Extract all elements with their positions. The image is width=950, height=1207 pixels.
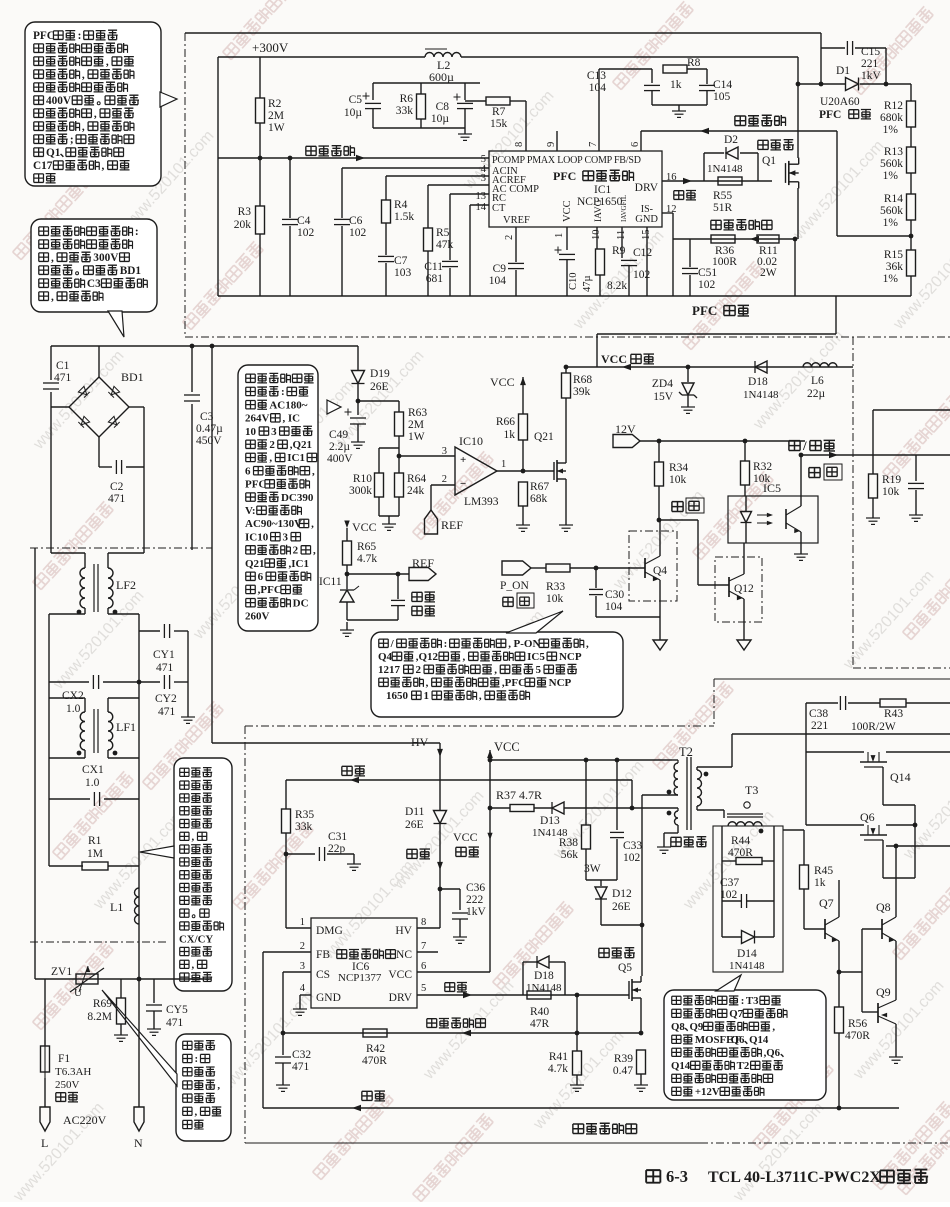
wire DRV pin16 to Q1 gate <box>662 180 772 182</box>
svg-text:R9: R9 <box>612 245 626 257</box>
svg-text:R40: R40 <box>530 1006 549 1018</box>
wire secondary output rail <box>732 733 950 735</box>
svg-text:D18: D18 <box>748 376 768 388</box>
wire Q21 drain to R68 <box>565 398 567 457</box>
wire Q5 drain up to T2 primary <box>641 795 643 976</box>
svg-text:R19: R19 <box>882 474 901 486</box>
wire R19 to ground <box>872 498 874 515</box>
svg-text:102: 102 <box>349 227 367 239</box>
wire Q7 base stub <box>804 928 825 930</box>
resistor R11 <box>757 235 779 243</box>
capacitor (REF bypass) <box>391 599 405 601</box>
wire D14 left <box>722 936 741 938</box>
svg-text:L1: L1 <box>110 900 123 914</box>
svg-text:1kV: 1kV <box>466 906 487 918</box>
wire R7 to pin8 drop <box>510 100 526 102</box>
svg-text:C49: C49 <box>329 429 348 441</box>
svg-text:R2: R2 <box>268 98 282 110</box>
callout note: anti-interference description <box>174 758 232 991</box>
resistor R33 <box>546 564 570 572</box>
boxed kai guan under P_ON <box>503 597 513 606</box>
wire LED anode <box>745 496 747 511</box>
T3 terminal dot <box>744 802 750 808</box>
plug N <box>134 1107 144 1131</box>
resistor R63 <box>395 412 404 436</box>
standby bottom border right part (dash-dot) <box>700 1142 950 1144</box>
svg-text:4: 4 <box>300 983 306 994</box>
svg-text:1k: 1k <box>504 429 516 441</box>
wire C5/R6/C8 bottom <box>373 127 465 129</box>
svg-text:39k: 39k <box>573 386 591 398</box>
wire Q6 drain rail <box>806 824 864 826</box>
wire to R32 <box>744 441 746 461</box>
wire pin12 vertical to rail <box>672 213 674 296</box>
ground under IC5 <box>800 551 802 554</box>
svg-text:8.2k: 8.2k <box>607 280 627 292</box>
svg-text:R69: R69 <box>93 998 112 1010</box>
wire LF1 right top <box>107 698 109 712</box>
svg-text:T2: T2 <box>679 745 693 759</box>
wire R10 bottom <box>378 497 380 516</box>
wire C5/R6/C8 top <box>373 82 480 84</box>
wire C7 to ground rail <box>385 263 387 296</box>
wire sampling node to R3 <box>259 158 261 206</box>
svg-text:R12: R12 <box>884 100 903 112</box>
svg-text:221: 221 <box>811 720 829 732</box>
svg-text:CX1: CX1 <box>82 764 104 776</box>
wire jog to LF1 left <box>49 697 85 699</box>
wire C10 to ground rail <box>566 260 568 296</box>
zener diode ZD4 <box>682 383 694 395</box>
svg-text:102: 102 <box>623 852 641 864</box>
feedback label (fan kui) <box>342 766 365 776</box>
flag P_ON input <box>502 561 531 575</box>
cold/hot isolation border vertical (dash-dot) <box>852 337 854 668</box>
wire feedback (fan kui) <box>286 779 632 781</box>
svg-text:AC220V: AC220V <box>63 1113 107 1127</box>
svg-text:C3: C3 <box>87 278 101 290</box>
wire to C14 <box>706 69 708 84</box>
svg-text:PFC: PFC <box>692 303 717 318</box>
svg-text:260V: 260V <box>245 611 270 623</box>
transistor Q12 NPN <box>728 577 730 597</box>
svg-text:Q21: Q21 <box>534 431 554 443</box>
wire VCC supply rail <box>566 366 853 368</box>
callout note: high/low voltage switching description <box>238 365 318 631</box>
wire C8 bottom <box>464 109 466 128</box>
wire IC1 pin13 RC <box>450 193 489 195</box>
wire R4 to C7 <box>385 223 387 255</box>
wire C36 top <box>459 889 461 910</box>
svg-text:T3: T3 <box>745 783 758 797</box>
svg-text:T3: T3 <box>746 995 759 1007</box>
svg-text:R43: R43 <box>884 708 903 720</box>
wire jog right <box>108 757 139 759</box>
svg-text:680k: 680k <box>880 112 903 124</box>
svg-text:Q4: Q4 <box>653 565 667 577</box>
wire D18 branch right <box>564 962 566 995</box>
IC6 inner label standby power drive <box>337 949 396 959</box>
wire Q14 gate down <box>882 767 884 805</box>
svg-text:22µ: 22µ <box>807 388 826 400</box>
svg-text:,Q21: ,Q21 <box>290 439 312 451</box>
wire pin4 down <box>299 995 301 1007</box>
wire to R69 <box>120 979 122 998</box>
transistor Q5 N-MOSFET <box>628 981 630 999</box>
svg-text:/: / <box>802 438 807 453</box>
arrow start-up <box>437 862 443 870</box>
svg-text:、: 、 <box>780 1047 791 1059</box>
transformer T2 aux winding <box>675 811 679 825</box>
svg-text:Q21: Q21 <box>245 558 265 570</box>
wire R45 to Q7 base <box>803 889 805 929</box>
wire C36 to ground <box>459 919 461 934</box>
wire +300V rail right of L2 <box>461 56 798 58</box>
svg-text:,Q12: ,Q12 <box>416 651 439 663</box>
flag 12V input <box>613 435 640 448</box>
wire C15 left <box>821 47 845 49</box>
svg-text:1: 1 <box>554 233 565 238</box>
wire right rail to LF2 <box>143 407 145 553</box>
wire IC1 pin12 stub <box>662 212 673 214</box>
start-up label (qi dong) <box>407 849 430 859</box>
svg-text:,PFC: ,PFC <box>502 677 526 689</box>
ground under C49 <box>357 438 359 442</box>
ground under C8 <box>464 128 466 134</box>
capacitor CX1 <box>93 792 95 806</box>
arrow on output sampling wire <box>700 128 709 135</box>
svg-text:PFC: PFC <box>33 30 55 42</box>
svg-text:C32: C32 <box>292 1049 311 1061</box>
wire L line to fuse <box>44 979 46 1046</box>
wire R39 to ground <box>640 1074 642 1083</box>
wire pin14 down to rail <box>469 205 471 296</box>
wire to C5 <box>372 83 374 100</box>
wire EMI right rail <box>138 614 140 979</box>
svg-text:Q1: Q1 <box>46 147 61 159</box>
wire R68 top <box>565 367 567 373</box>
svg-text:1%: 1% <box>883 124 899 136</box>
capacitor CY5 <box>146 1004 162 1006</box>
svg-text:10k: 10k <box>669 474 687 486</box>
svg-text:IC: IC <box>288 413 300 425</box>
svg-text:0.47: 0.47 <box>613 1065 633 1077</box>
svg-text:,PFC: ,PFC <box>258 584 282 596</box>
wire PFC left vertical <box>217 57 219 296</box>
output sampling label (shu chu qu yang) <box>735 115 786 126</box>
svg-text:T6.3AH: T6.3AH <box>55 1066 91 1078</box>
wire C38 left <box>806 702 838 704</box>
wire P_ON to R33 <box>531 567 546 569</box>
svg-text:+12V: +12V <box>695 1086 720 1098</box>
svg-text:R45: R45 <box>814 865 833 877</box>
wire R35 to IC6 pin1 <box>285 833 287 928</box>
wire D18 right <box>549 961 565 963</box>
svg-text:102: 102 <box>698 279 716 291</box>
wire network right bus <box>773 826 775 937</box>
svg-text:IC1: IC1 <box>287 452 305 464</box>
svg-text:4.7k: 4.7k <box>548 1063 568 1075</box>
svg-text:VCC: VCC <box>352 520 377 534</box>
diode D2 <box>726 147 738 159</box>
capacitor C32 <box>275 1056 291 1058</box>
wire Q7 emitter down to R56 <box>838 941 840 1007</box>
resistor R2 <box>256 98 265 123</box>
wire Q14 gate jog <box>883 804 915 806</box>
wire Q7 collector up <box>838 880 840 917</box>
wire R3 to ground rail <box>259 234 261 296</box>
svg-text:36k: 36k <box>886 261 904 273</box>
svg-text:1W: 1W <box>408 431 425 443</box>
wire C13 to ground bus <box>651 91 653 105</box>
wire photo collector inside <box>800 496 802 506</box>
capacitor C4 <box>282 218 298 220</box>
wire LF1 left bottom <box>84 750 86 758</box>
svg-text:56k: 56k <box>561 849 579 861</box>
svg-text:N: N <box>134 1136 143 1150</box>
wire CY5 to ground <box>153 1011 155 1026</box>
svg-text:2.2µ: 2.2µ <box>329 441 350 453</box>
svg-text:8: 8 <box>421 917 426 928</box>
ground under Q9 <box>895 1053 897 1057</box>
wire C15 to cathode <box>885 48 887 84</box>
svg-text:3: 3 <box>481 173 486 184</box>
wire L2 output to Q1 drain <box>797 57 799 158</box>
svg-text:D14: D14 <box>737 948 757 960</box>
wire secondary bottom jog <box>697 809 724 811</box>
svg-text:DC390: DC390 <box>281 492 314 504</box>
capacitor C49 (polarized) <box>350 417 366 419</box>
wire R2 to sampling node <box>259 123 261 158</box>
wire to D2 <box>704 152 724 154</box>
over-current protection label (guo dian liu bao hu) <box>711 219 772 230</box>
wire LF1 left top <box>84 698 86 712</box>
svg-text:1650: 1650 <box>386 690 409 702</box>
wire HV down to D11 <box>439 743 441 811</box>
svg-text:,Q6: ,Q6 <box>764 1047 781 1059</box>
svg-text:CY2: CY2 <box>155 693 177 705</box>
wire gate bus vertical <box>914 805 916 878</box>
svg-text:R68: R68 <box>573 374 592 386</box>
arrow HV down <box>437 749 443 757</box>
ground under C32 <box>282 1083 284 1085</box>
plug L <box>40 1107 50 1131</box>
resistor R41 <box>573 1051 582 1075</box>
svg-text:471: 471 <box>108 493 126 505</box>
svg-text:NC: NC <box>396 949 412 961</box>
wire C30 down <box>595 596 597 617</box>
standby section bottom border <box>245 1142 700 1144</box>
diode D12 <box>595 887 607 899</box>
svg-text:R32: R32 <box>753 461 772 473</box>
svg-text:IC10: IC10 <box>459 434 483 448</box>
svg-text:C30: C30 <box>605 589 624 601</box>
wire jog to LF2 right <box>108 552 144 554</box>
svg-text:102: 102 <box>297 227 315 239</box>
svg-text:5: 5 <box>536 664 542 676</box>
capacitor CY2 <box>163 675 165 689</box>
svg-text:8: 8 <box>514 142 525 147</box>
resistor R66 <box>519 414 528 440</box>
wire emitter node to base bus <box>839 971 862 973</box>
wire to C36 <box>440 888 460 890</box>
svg-text:471: 471 <box>156 662 174 674</box>
arrow on regulation wire <box>352 1105 361 1112</box>
resistor R36 <box>711 235 735 243</box>
svg-text:D11: D11 <box>405 806 425 818</box>
wire PFC bottom rail <box>218 295 911 297</box>
svg-text:20k: 20k <box>234 219 252 231</box>
wire divider to IC10 pin3 <box>399 455 455 457</box>
phototransistor inside IC5 <box>785 509 787 529</box>
wire jog left <box>49 757 85 759</box>
wire to ZD4 <box>687 367 689 382</box>
wire Q4 emitter down <box>659 580 661 637</box>
mains sampling label (shi dian qu yang) <box>306 145 355 156</box>
svg-text:26E: 26E <box>612 901 631 913</box>
svg-text:8.2M: 8.2M <box>87 1011 112 1023</box>
wire CX2 left <box>49 681 89 683</box>
capacitor C2 <box>115 460 117 474</box>
resistor R19 <box>869 474 878 498</box>
wire down to IC1 pin8 <box>525 101 527 151</box>
svg-text:1k: 1k <box>670 79 682 91</box>
wire R13-R14 <box>910 173 912 194</box>
wire LF2 right bottom <box>107 608 109 614</box>
wire D1 to divider top <box>860 83 911 85</box>
capacitor C3 <box>184 394 200 396</box>
svg-text:REF: REF <box>412 556 434 570</box>
standby block label (fu dian yuan dian lu) <box>573 1123 637 1134</box>
svg-text:R64: R64 <box>407 473 426 485</box>
over-current protection label standby <box>427 1018 486 1028</box>
svg-text:R7: R7 <box>492 106 506 118</box>
wire C4 to ground rail <box>289 226 291 296</box>
svg-text:,: , <box>463 651 466 663</box>
svg-text:R15: R15 <box>884 249 903 261</box>
svg-text:AC90~130V: AC90~130V <box>245 518 302 530</box>
line filter LF1 <box>80 712 85 750</box>
capacitor C5 (polarized) <box>365 102 381 104</box>
resistor R44 <box>736 858 762 865</box>
svg-text:300k: 300k <box>349 485 372 497</box>
switch transistor label Q5 (kai guan guan) <box>599 948 635 958</box>
wire R32 to IC5 LED <box>744 485 746 496</box>
wire ZD4 to ground <box>687 395 689 404</box>
wire bridge - output down <box>98 437 100 467</box>
transformer T3 winding <box>728 822 762 826</box>
svg-text:600µ: 600µ <box>429 70 454 84</box>
svg-text:,: , <box>217 1080 220 1092</box>
svg-text:,: , <box>494 664 497 676</box>
wire R5 to ground rail <box>427 251 429 296</box>
svg-text:IC5: IC5 <box>527 651 545 663</box>
wire T3 to R45 node <box>783 829 804 831</box>
svg-text:C38: C38 <box>809 708 828 720</box>
svg-text:Q5: Q5 <box>618 962 632 974</box>
wire jog up to output rail <box>731 734 733 767</box>
wire C14 to ground bus <box>706 91 708 105</box>
sync drive network box <box>713 826 783 972</box>
wire to CY2 <box>139 681 160 683</box>
wire network left bus <box>721 826 723 937</box>
svg-text:1: 1 <box>501 459 506 470</box>
svg-text:R3: R3 <box>238 206 252 218</box>
wire Q1 drain node to D1 <box>798 83 845 85</box>
wire Q14 source rail <box>886 751 950 753</box>
inductor L6 <box>803 363 837 367</box>
capacitor C12 <box>621 259 637 261</box>
wire LED cathode <box>745 523 747 543</box>
on/off machine label (kai/guan ji) <box>789 441 800 451</box>
svg-text:R38: R38 <box>559 837 578 849</box>
transformer T2 primary winding <box>674 763 678 795</box>
svg-text:6: 6 <box>258 571 264 583</box>
wire IC1 pin10 down <box>596 227 598 249</box>
svg-text:3: 3 <box>271 426 277 438</box>
svg-text:C2: C2 <box>110 481 124 493</box>
svg-text::: : <box>281 386 285 398</box>
capacitor C30 <box>589 588 603 590</box>
svg-text:2: 2 <box>300 941 305 952</box>
capacitor C8 (polarized) <box>457 102 473 104</box>
wire over-current sense <box>673 238 795 240</box>
wire CY1 right <box>174 630 188 632</box>
wire C12 to ground rail <box>628 266 630 296</box>
wire varistor row <box>35 978 211 980</box>
svg-text:PCOMP PMAX LOOP COMP FB/SD: PCOMP PMAX LOOP COMP FB/SD <box>492 155 641 166</box>
svg-text:4.7k: 4.7k <box>357 553 377 565</box>
wire N line down <box>138 979 140 1107</box>
capacitor C11 <box>442 260 458 262</box>
wire bypass cap bottom <box>397 606 399 620</box>
svg-text:,: , <box>311 518 314 530</box>
svg-text:450V: 450V <box>196 435 222 447</box>
EMI section top border (dash-dot) <box>30 547 212 549</box>
wire D12 down <box>600 899 602 925</box>
svg-text:560k: 560k <box>880 205 903 217</box>
wire regulation line (wen ya) <box>263 1107 899 1109</box>
wire C9 to ground rail <box>515 270 517 296</box>
svg-text:471: 471 <box>166 1017 184 1029</box>
svg-text:R33: R33 <box>546 581 565 593</box>
arrow on sampling wire <box>356 155 365 162</box>
resistor R37 <box>510 805 534 812</box>
wire LF2 left top <box>84 553 86 568</box>
svg-text:VREF: VREF <box>503 215 530 226</box>
flag REF input <box>425 510 438 534</box>
svg-text:CY1: CY1 <box>153 649 175 661</box>
wire Q4 collector to Q12 base jog <box>659 519 698 521</box>
wire jog to left rail <box>49 613 85 615</box>
wire T2 secondary bottom stub <box>696 806 698 810</box>
wire C49 to ground <box>357 424 359 438</box>
wire T2 primary bottom to switch <box>642 794 678 796</box>
svg-text:REF: REF <box>441 518 463 532</box>
svg-text:1kV: 1kV <box>861 70 882 82</box>
svg-text:6: 6 <box>421 961 426 972</box>
svg-text:,: , <box>313 545 316 557</box>
wire D12 to Q5 drain node <box>601 924 642 926</box>
svg-text:,: , <box>772 1021 775 1033</box>
svg-text:LF2: LF2 <box>116 578 136 592</box>
wire top rail of PFC block <box>185 32 821 34</box>
svg-text:Q6: Q6 <box>860 810 875 824</box>
diode D14 <box>742 931 755 944</box>
wire C5 bottom <box>372 109 374 128</box>
svg-text:R66: R66 <box>496 416 515 428</box>
arrow on sense wire <box>750 236 759 243</box>
